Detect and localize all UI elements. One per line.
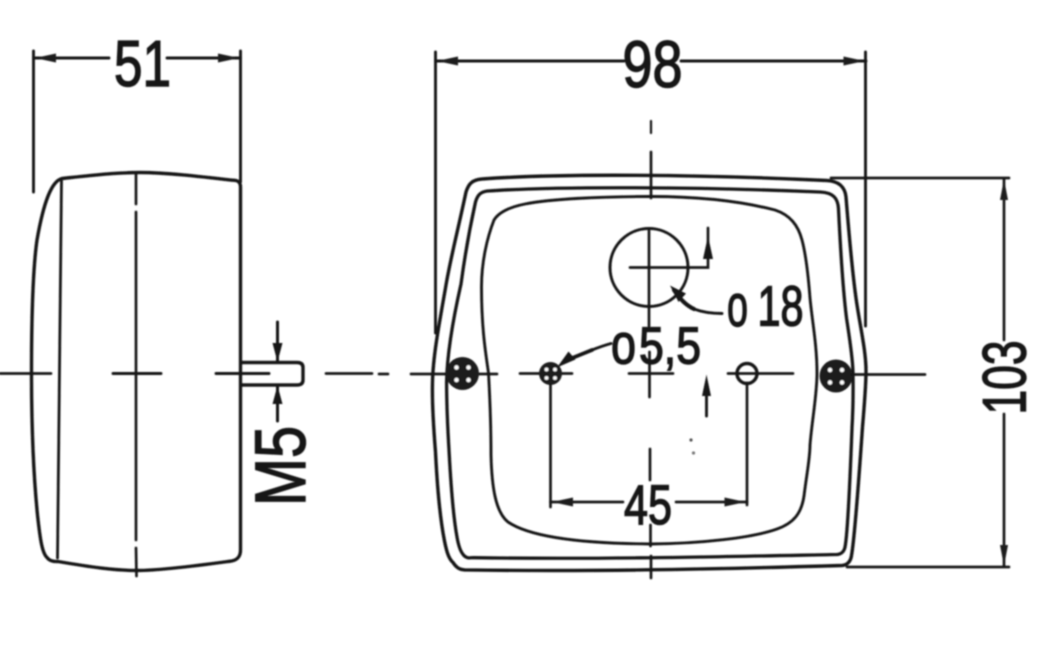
dim 103 dimension line (1003, 179, 1006, 340)
dim 45 dimension line (551, 501, 624, 504)
centerline dash 2 between views (379, 373, 388, 376)
svg-text:103: 103 (971, 341, 1037, 415)
o5,5 leader arrowhead (557, 352, 576, 368)
dim 103 arrowhead bottom (1000, 545, 1008, 566)
centerline dash 1 between views (326, 372, 372, 375)
centerline dash through left screw (411, 373, 497, 376)
svg-text:18: 18 (758, 275, 804, 339)
dim 98 extension line right (864, 52, 867, 326)
elbow arrowhead pointing up (703, 236, 713, 259)
dim 98 arrowhead left (437, 57, 458, 66)
scan speck 2 (692, 451, 695, 454)
M5 stud vertical leader line below (276, 387, 279, 421)
dim 103 arrowhead top (1000, 179, 1008, 200)
dim 45 extension line right / hole axis (746, 383, 749, 505)
svg-text:51: 51 (114, 27, 171, 100)
M5 arrowhead pointing up (273, 386, 283, 405)
svg-text:98: 98 (623, 27, 683, 101)
center cross tick of side view (113, 372, 161, 375)
right mounting hole (open) (728, 372, 793, 375)
housing inner edge line (rear view) (447, 188, 854, 559)
right screw dot (820, 360, 853, 393)
dim 45 extension line left / hole axis (549, 385, 552, 507)
small orientation arrow (705, 390, 708, 416)
lamp body outline (side view) (32, 173, 241, 571)
svg-text:M5: M5 (242, 426, 321, 506)
hole circle o18 (610, 229, 688, 307)
dim 98 dimension line (436, 60, 625, 63)
svg-text:45: 45 (624, 473, 672, 536)
center cross of rear view (629, 372, 673, 375)
o18 leader arrowhead (670, 286, 686, 303)
dim 45 arrowhead right (725, 498, 746, 507)
lens aperture boundary (inner rounded square) (482, 197, 818, 545)
M5 arrowhead pointing down (273, 343, 283, 362)
dim 98 arrowhead right (844, 57, 865, 66)
centerline right of right screw (852, 373, 925, 376)
horizontal centerline through stud (216, 372, 269, 375)
dim 45 arrowhead left (552, 498, 573, 507)
dim 103 top extension line (831, 177, 1009, 180)
dim 98 extension line left (434, 52, 437, 333)
scan speck 1 (689, 438, 692, 441)
dim 103 bottom extension line (847, 566, 1009, 569)
o5,5 leader line (571, 350, 592, 359)
vertical centerline of side view (135, 173, 138, 205)
vertical centerline top dashes (650, 121, 652, 133)
dim 51 extension line left (32, 51, 35, 192)
M5 stud vertical leader line above (276, 322, 279, 361)
o18 horizontal cross line with elbow (630, 228, 708, 268)
svg-text:o: o (727, 273, 748, 339)
M5 stud (241, 363, 303, 386)
vertical centerline lower dashes (649, 449, 652, 480)
svg-text:o: o (611, 313, 636, 377)
dim 51 arrowhead left (35, 54, 56, 63)
o18 vertical cross line (648, 231, 651, 326)
housing outer outline (rear view) (432, 175, 866, 570)
horizontal centerline far left (0, 372, 51, 375)
left mounting hole (filled) (520, 372, 572, 375)
dim 51 extension line right (239, 51, 242, 182)
o18 leader line (674, 290, 694, 309)
dim 51 dimension line (34, 57, 110, 60)
lens seam line (58, 181, 62, 558)
left screw dot (446, 357, 479, 390)
dim 51 arrowhead right (218, 54, 239, 63)
